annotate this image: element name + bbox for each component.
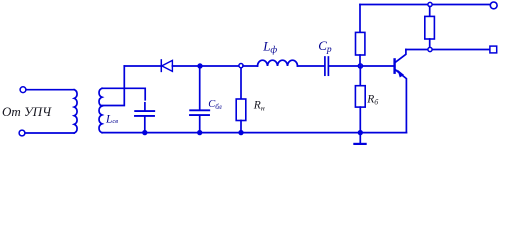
rail junction Rn bbox=[239, 131, 243, 135]
output terminal circle bbox=[490, 2, 497, 9]
resistor R2 collector bbox=[425, 6, 435, 47]
svg-text:От УПЧ: От УПЧ bbox=[2, 104, 52, 119]
wire bottom input bbox=[25, 132, 74, 134]
collector rail junction bbox=[428, 47, 432, 51]
rail junction bbox=[428, 2, 432, 6]
collector wire bbox=[406, 49, 490, 51]
capacitor C2 blocking lead bbox=[190, 68, 209, 133]
wire node B to Lf bbox=[243, 65, 258, 67]
wire diode to node A bbox=[172, 65, 197, 67]
base node junction bbox=[358, 64, 362, 68]
diode VD bbox=[161, 60, 172, 72]
input terminal top bbox=[20, 87, 26, 93]
svg-text:Сбл: Сбл bbox=[208, 99, 222, 111]
node B junction bbox=[239, 64, 243, 68]
top rail bbox=[360, 4, 490, 6]
capacitor C1 tuning bbox=[135, 111, 154, 133]
resistor R1 divider upper bbox=[356, 5, 365, 67]
bottom rail bbox=[102, 132, 406, 134]
svg-text:Rн: Rн bbox=[253, 100, 265, 113]
node A junction bbox=[198, 64, 202, 68]
wire base node to transistor bbox=[360, 65, 393, 67]
resistor Rn load bbox=[236, 68, 246, 131]
tap wire bbox=[101, 66, 125, 106]
svg-text:Rб: Rб bbox=[366, 94, 379, 107]
wire Cp to base node bbox=[329, 65, 360, 67]
wire Lf to Cp bbox=[298, 65, 325, 67]
rail junction ground bbox=[358, 131, 362, 135]
capacitor Cp coupling bbox=[325, 57, 329, 75]
transistor VT bbox=[395, 50, 407, 133]
output terminal square bbox=[490, 46, 497, 53]
wire node A to node B bbox=[202, 65, 239, 67]
transformer primary winding bbox=[74, 90, 77, 133]
resistor Rb divider lower bbox=[355, 66, 365, 131]
input terminal bottom bbox=[19, 130, 25, 136]
rail junction C2 bbox=[198, 131, 202, 135]
rail junction C1 bbox=[143, 131, 147, 135]
wire tap to diode bbox=[124, 65, 160, 67]
svg-text:Ср: Ср bbox=[318, 38, 332, 55]
inductor Lf bbox=[258, 60, 298, 66]
wire secondary top to C1 bbox=[102, 88, 145, 100]
transformer secondary winding Lsv bbox=[99, 88, 102, 132]
wire top input bbox=[26, 89, 74, 91]
svg-text:Lсв: Lсв bbox=[105, 113, 118, 125]
wire C1 upper lead bbox=[144, 103, 146, 110]
svg-text:Lф: Lф bbox=[262, 38, 277, 55]
ground bbox=[354, 134, 365, 144]
